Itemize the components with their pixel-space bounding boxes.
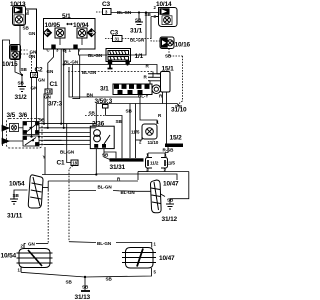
svg-text:31/12: 31/12 [162,216,178,223]
svg-text:31: 31 [115,36,120,41]
svg-text:GN: GN [47,69,54,74]
svg-text:3/6: 3/6 [19,112,28,119]
svg-text:SB: SB [102,153,109,158]
svg-text:BL-GN: BL-GN [117,10,132,15]
svg-text:31/10: 31/10 [171,107,187,114]
svg-text:10/94: 10/94 [73,22,89,29]
svg-text:31/11: 31/11 [7,213,23,220]
svg-text:SB: SB [23,26,30,31]
svg-text:31/2: 31/2 [15,94,28,101]
svg-text:BL-GN: BL-GN [64,60,79,65]
svg-text:10/47: 10/47 [163,181,179,188]
svg-text:GN: GN [31,86,38,91]
svg-text:11/5: 11/5 [131,130,140,135]
svg-text:11/10: 11/10 [148,140,159,145]
svg-text:BN: BN [87,93,94,98]
svg-text:GN: GN [38,78,45,83]
svg-text:GN: GN [29,31,36,36]
svg-text:GN: GN [29,54,36,59]
svg-text:B: B [63,48,66,53]
svg-text:C1: C1 [50,81,59,88]
svg-text:10/15: 10/15 [2,61,18,68]
svg-text:15/1: 15/1 [162,66,175,73]
svg-text:5/1: 5/1 [62,13,71,20]
svg-text:10/14: 10/14 [156,1,172,8]
svg-text:18: 18 [46,89,51,94]
svg-text:BL-GN: BL-GN [88,53,103,58]
svg-text:C1: C1 [57,160,66,167]
svg-text:11/2: 11/2 [150,160,159,165]
svg-text:3/5: 3/5 [7,112,16,119]
svg-text:C3: C3 [102,1,111,8]
svg-text:10/54: 10/54 [1,253,17,260]
svg-text:SB: SB [82,285,89,290]
svg-text:SB: SB [13,193,20,198]
svg-text:C2: C2 [35,67,44,74]
svg-text:C: C [47,48,50,53]
svg-text:10/47: 10/47 [159,255,175,262]
svg-text:3/59:3: 3/59:3 [95,98,113,105]
svg-text:SB: SB [66,280,73,285]
svg-text:10/16: 10/16 [175,42,191,49]
svg-text:15/2: 15/2 [170,135,183,142]
svg-text:BL-GN: BL-GN [121,190,136,195]
svg-text:BL-GN: BL-GN [97,241,112,246]
svg-text:GN: GN [44,95,51,100]
svg-text:SB: SB [106,277,113,282]
svg-text:2/36: 2/36 [92,121,105,128]
svg-text:SB: SB [18,81,25,86]
svg-text:10/54: 10/54 [9,181,25,188]
svg-text:3/7:3: 3/7:3 [48,101,63,108]
svg-text:10/95: 10/95 [45,22,61,29]
svg-text:3/1: 3/1 [100,86,109,93]
svg-text:Y: Y [43,155,46,160]
svg-text:18: 18 [72,161,77,166]
svg-text:BL-GN: BL-GN [82,70,97,75]
svg-text:SB: SB [89,111,96,116]
svg-text:1/1: 1/1 [135,53,144,60]
svg-text:SB: SB [126,109,133,114]
svg-text:BL-Y: BL-Y [138,93,148,98]
svg-text:SB: SB [167,198,174,203]
svg-text:31/13: 31/13 [75,294,91,300]
svg-text:31/1: 31/1 [130,28,143,35]
svg-text:31/31: 31/31 [110,164,126,171]
svg-text:11/5: 11/5 [167,160,176,165]
svg-text:SB: SB [145,12,152,17]
svg-text:SB: SB [165,54,172,59]
svg-text:SB: SB [116,119,123,124]
svg-text:GN: GN [28,241,35,246]
svg-text:BL-GN: BL-GN [60,150,75,155]
svg-text:SB: SB [39,118,46,123]
svg-text:SB: SB [135,18,142,23]
svg-text:BL-GN: BL-GN [130,38,145,43]
svg-text:SB: SB [21,67,28,72]
svg-text:BL-GN: BL-GN [98,185,113,190]
svg-text:C3: C3 [110,30,119,37]
